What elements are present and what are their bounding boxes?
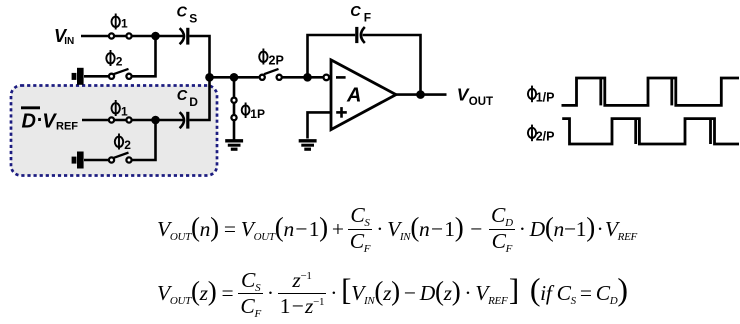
svg-text:1P: 1P [250, 107, 265, 121]
svg-text:S: S [189, 12, 197, 26]
svg-text:1: 1 [121, 105, 128, 119]
svg-text:1: 1 [121, 17, 128, 31]
svg-text:F: F [364, 10, 371, 24]
svg-text:OUT: OUT [469, 96, 493, 108]
svg-text:REF: REF [56, 120, 78, 132]
svg-text:2P: 2P [269, 54, 284, 68]
svg-text:2/P: 2/P [536, 129, 555, 143]
svg-text:1/P: 1/P [536, 90, 555, 104]
svg-text:D: D [22, 111, 36, 133]
svg-text:C: C [350, 4, 361, 20]
svg-text:C: C [177, 4, 188, 20]
svg-text:C: C [177, 88, 188, 104]
svg-text:2: 2 [116, 55, 123, 69]
svg-text:2: 2 [124, 138, 131, 152]
svg-text:IN: IN [64, 36, 74, 47]
svg-text:D: D [189, 95, 198, 109]
svg-text:A: A [346, 85, 361, 107]
